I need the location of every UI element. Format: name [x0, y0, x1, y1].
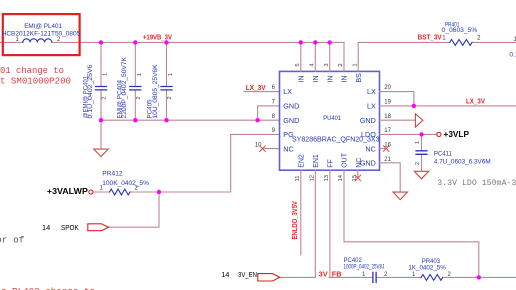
svg-text:3: 3 [324, 63, 330, 66]
svg-text:NC: NC [283, 144, 293, 153]
junction PG/SPOK [157, 190, 161, 194]
resistor PR403 [421, 275, 443, 281]
junction +19VB at PC404 [133, 40, 137, 44]
junction bus at PC405 [164, 118, 168, 122]
wire IC pin18 stub [380, 119, 416, 121]
junction OUT/feedback [477, 275, 481, 279]
svg-text:IN: IN [298, 76, 305, 83]
no-connect X pin10 [260, 146, 266, 152]
svg-text:OUT: OUT [342, 152, 349, 168]
svg-text:11: 11 [295, 175, 301, 181]
svg-text:15: 15 [352, 175, 358, 181]
ground symbol under cap bus [94, 149, 108, 157]
junction bus at PC404 [133, 118, 137, 122]
wire LDO pin17 to +3VLP [380, 133, 437, 135]
svg-text:1: 1 [168, 73, 174, 76]
capacitor PC402 [373, 272, 376, 282]
svg-text:GND: GND [283, 116, 299, 125]
junction LX_3V pin20/19 [412, 104, 416, 108]
red highlight box around PL401 [3, 14, 80, 55]
junction +19VB at PC405 [164, 40, 168, 44]
svg-text:1: 1 [137, 73, 143, 76]
wire PC404 drop [134, 42, 136, 120]
svg-text:21: 21 [384, 157, 391, 163]
svg-text:GND: GND [283, 102, 299, 111]
flag 3V_EN [258, 274, 280, 281]
inductor PL401 [23, 39, 52, 43]
svg-text:14: 14 [338, 174, 344, 181]
svg-text:LX: LX [367, 102, 376, 111]
svg-text:PR412: PR412 [102, 171, 123, 178]
svg-text:5: 5 [295, 63, 301, 66]
ground symbol under PC411 [414, 171, 428, 179]
svg-text:19: 19 [384, 100, 391, 106]
junction +19VB at pin5 [299, 40, 303, 44]
junction +19VB at pin4 [313, 40, 317, 44]
svg-text:0_0603_5%: 0_0603_5% [442, 27, 478, 34]
svg-text:2: 2 [415, 162, 421, 165]
wire IC pin10 NC stub [263, 148, 280, 150]
svg-text:14: 14 [42, 223, 50, 232]
wire IC pin20 to pin19 [380, 92, 414, 106]
junction +19VB at pin3 [328, 40, 332, 44]
svg-text:13: 13 [324, 175, 330, 181]
capacitor PC405 [161, 87, 172, 90]
svg-text:+3VLP: +3VLP [444, 130, 470, 139]
svg-text:NC: NC [365, 144, 375, 153]
svg-text:3V_FB: 3V_FB [319, 272, 342, 279]
svg-text:17: 17 [384, 128, 391, 134]
svg-text:+3VALWP: +3VALWP [47, 187, 89, 196]
svg-text:BS: BS [356, 73, 363, 83]
flag SPOK [88, 224, 109, 231]
capacitor PC411 [416, 151, 427, 155]
wire LX_3V output pin19 [380, 105, 516, 107]
svg-text:01 change to: 01 change to [0, 65, 64, 76]
svg-text:1: 1 [352, 63, 358, 66]
svg-text:12: 12 [309, 175, 315, 181]
svg-text:EMI@ PL401: EMI@ PL401 [24, 23, 62, 30]
wire EN2 pin11 ENLDO_3V5V [300, 170, 302, 255]
svg-text:t SM01000P200: t SM01000P200 [0, 75, 71, 86]
svg-text:14: 14 [221, 270, 229, 279]
svg-text:2200P_0402_50V7K: 2200P_0402_50V7K [121, 56, 128, 118]
svg-text:2: 2 [136, 96, 142, 99]
wire IC pin7 to bus [258, 106, 280, 120]
svg-text:3.3V LDO 150mA-3: 3.3V LDO 150mA-3 [437, 178, 516, 188]
resistor PR401 [450, 40, 472, 46]
svg-text:e PL403 change to: e PL403 change to [1, 286, 95, 290]
ground symbol pin21 [393, 192, 407, 200]
off-page arrow pin18 [415, 114, 423, 127]
svg-text:GND: GND [360, 116, 376, 125]
wire NC pin15 stub [357, 170, 359, 178]
wire FF pin13 to 3V_FB [329, 170, 331, 277]
svg-text:0.1U_0402_25V6: 0.1U_0402_25V6 [87, 64, 94, 119]
svg-text:LX_3V: LX_3V [246, 85, 266, 92]
svg-text:4.7U_0603_6.3V6M: 4.7U_0603_6.3V6M [434, 158, 491, 165]
svg-text:2: 2 [167, 96, 173, 99]
no-connect X pin15 [355, 175, 361, 181]
svg-text:PC411: PC411 [434, 151, 453, 158]
svg-text:FF: FF [327, 159, 334, 168]
svg-text:IN: IN [313, 76, 320, 83]
wire OUT pin14 loop to feedback [344, 170, 479, 277]
svg-text:100K_0402_5%: 100K_0402_5% [102, 180, 149, 187]
wire EN1 pin12 to 3V_EN flag [280, 170, 316, 277]
resistor PR412 [110, 189, 131, 195]
svg-text:LX: LX [367, 87, 376, 96]
wire ground stem [100, 120, 102, 149]
wire IC top pin2 stub [343, 42, 345, 71]
wire IC top pin5 stub [300, 42, 302, 71]
svg-text:10U_0805_25V6K: 10U_0805_25V6K [152, 64, 159, 119]
svg-text:+19VB_3V: +19VB_3V [143, 34, 172, 41]
svg-text:3V_EN: 3V_EN [238, 270, 257, 279]
wire IC pin21 to ground [380, 163, 401, 192]
wire PC405 drop [166, 42, 168, 120]
svg-text:SPOK: SPOK [61, 223, 79, 232]
svg-text:PU401: PU401 [323, 115, 341, 122]
port circle +3VLP [437, 132, 441, 136]
svg-text:LX: LX [283, 87, 292, 96]
svg-text:NC: NC [356, 158, 363, 168]
junction bus at PC401 [99, 118, 103, 122]
svg-text:IN: IN [342, 76, 349, 83]
port circle +3VALWP [89, 190, 93, 194]
svg-text:0.1: 0.1 [509, 52, 516, 59]
wire IC pin16 NC stub [380, 148, 388, 150]
svg-text:1000P_0402_25V8J: 1000P_0402_25V8J [344, 264, 385, 271]
svg-text:BST_3V: BST_3V [418, 35, 442, 42]
junction LDO at PC411 [419, 132, 423, 136]
no-connect X pin16 [383, 146, 389, 152]
IC PU401 body [280, 71, 380, 170]
svg-text:16: 16 [384, 142, 391, 148]
wire IC top pin4 stub [314, 42, 316, 71]
wire PC411 drop [421, 134, 423, 171]
wire 3V_FB feedback bottom [330, 276, 516, 278]
svg-text:LX_3V: LX_3V [466, 98, 485, 105]
wire PG net: PR412 output to IC pin9 [93, 134, 280, 192]
wire LX_3V stub at IC pin6 [244, 91, 280, 93]
svg-text:SY8286BRAC_QFN20_3X3: SY8286BRAC_QFN20_3X3 [292, 135, 380, 144]
svg-text:1K_0402_5%: 1K_0402_5% [408, 265, 446, 272]
svg-text:20: 20 [384, 85, 391, 91]
junction bus at pin7 [255, 118, 259, 122]
capacitor PC401 [96, 87, 107, 90]
junction +19VB at PC401 [99, 40, 103, 44]
svg-text:ENLDO_3V5V: ENLDO_3V5V [292, 201, 299, 240]
svg-text:1: 1 [415, 141, 421, 144]
wire +19VB_3V rail left of inductor [0, 41, 23, 43]
svg-text:EN1: EN1 [313, 154, 320, 168]
svg-text:IN: IN [327, 76, 334, 83]
svg-text:HCB2012KF-121T50_0805: HCB2012KF-121T50_0805 [2, 30, 81, 37]
wire PC401 drop [100, 42, 102, 120]
wire +19VB_3V rail from inductor to IC pin2 [52, 41, 344, 43]
svg-text:10: 10 [255, 142, 262, 148]
svg-text:EN2: EN2 [298, 154, 305, 168]
wire SPOK flag to PG junction [109, 192, 160, 227]
wire BS pin1 to BST_3V resistor [358, 42, 516, 71]
svg-text:2: 2 [338, 63, 344, 66]
svg-text:18: 18 [384, 114, 391, 120]
wire IC top pin3 stub [329, 42, 331, 71]
svg-text:1: 1 [103, 73, 109, 76]
svg-text:or of: or of [0, 235, 25, 246]
capacitor PC404 [130, 87, 141, 90]
svg-text:2: 2 [102, 96, 108, 99]
wire ground bus under caps to IC pin8 [101, 119, 280, 121]
